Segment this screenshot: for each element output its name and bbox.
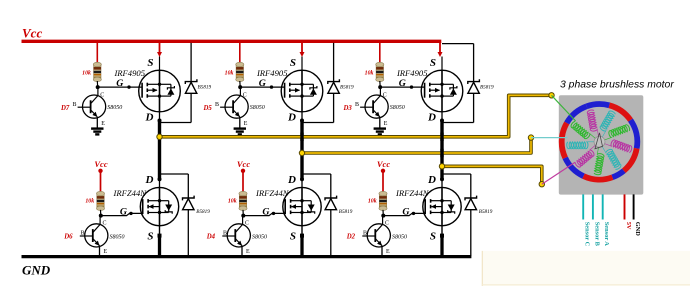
motor rotor magnet ring <box>562 104 638 180</box>
wire hall Sensor C (teal) <box>582 194 584 219</box>
svg-text:B5819: B5819 <box>339 209 353 215</box>
wire phase node 1 (thick) <box>158 121 161 180</box>
wire Vcc to S of high-side MOSFET 1 (red stub with arrow) <box>157 43 162 57</box>
svg-text:5V: 5V <box>625 222 632 230</box>
schottky diode B5819 low 3 <box>465 196 477 256</box>
wire emitter to ground high 2 <box>239 117 241 128</box>
svg-text:D: D <box>145 174 154 186</box>
wire node to gate low 2 <box>243 213 285 215</box>
wire S lead high 1 <box>159 57 161 71</box>
wire emitter to ground high 3 <box>379 117 381 128</box>
motor stator coil 6 <box>604 137 632 153</box>
wire phase A lead (green) <box>552 95 576 121</box>
motor stator coil 3 <box>587 110 599 139</box>
junction dot phase bottom 2 <box>300 177 304 181</box>
svg-text:E: E <box>384 121 388 127</box>
svg-text:D2: D2 <box>346 234 356 241</box>
svg-text:GND: GND <box>634 222 641 237</box>
svg-text:C: C <box>383 93 387 99</box>
svg-text:C: C <box>103 220 107 226</box>
svg-text:B5819: B5819 <box>480 85 494 91</box>
wire emitter to GND rail low 2 <box>241 246 243 256</box>
wire schottky to phase high 2 <box>302 122 334 124</box>
junction dot phase bottom 3 <box>440 177 444 181</box>
wire S lead high 3 <box>441 57 443 71</box>
svg-text:10k: 10k <box>368 199 377 205</box>
svg-text:B5819: B5819 <box>479 209 493 215</box>
svg-text:S: S <box>430 231 436 243</box>
wire Vcc to resistor high 3 (red) <box>379 43 381 63</box>
wire S to GND rail low 2 (thick) <box>301 226 303 256</box>
wire resistor to node low 1 <box>100 210 102 216</box>
schottky diode B5819 low 1 <box>183 196 195 256</box>
ground symbol high 1 <box>91 129 103 135</box>
svg-text:B5819: B5819 <box>196 209 210 215</box>
svg-text:C: C <box>385 220 389 226</box>
wire resistor to node high 1 <box>96 81 98 87</box>
node dot gate-drive high 1 <box>96 85 100 89</box>
motor rotor position marker <box>595 133 603 149</box>
wire D lead low 3 <box>441 179 443 187</box>
wire node to gate high 2 <box>240 86 284 88</box>
svg-text:B5819: B5819 <box>340 85 354 91</box>
wire resistor to node low 3 <box>382 210 384 216</box>
wire D lead low 1 <box>159 179 161 187</box>
transistor D7 S8050 (high driver 1) <box>78 87 106 118</box>
node dot gate-drive low 3 <box>381 214 385 218</box>
junction dot phase C end (gold) <box>539 182 544 187</box>
wire node to gate high 3 <box>380 86 424 88</box>
junction dot gate wire low 1 <box>129 212 132 215</box>
svg-text:S8050: S8050 <box>250 105 265 111</box>
node dot gate-drive high 2 <box>238 85 242 89</box>
motor stator coil 4 <box>596 110 616 138</box>
wire resistor to node high 3 <box>379 81 381 87</box>
svg-text:10k: 10k <box>82 71 91 77</box>
junction dot S lead low 3 <box>440 234 444 238</box>
Vcc supply arrow low 2 (red) <box>241 169 245 192</box>
wire motor 5V (red) <box>624 194 626 219</box>
wire motor phase C (gold) <box>442 166 542 184</box>
wire S lead high 2 <box>301 57 303 71</box>
svg-text:B: B <box>355 102 359 108</box>
svg-text:D7: D7 <box>60 105 70 112</box>
svg-text:C: C <box>243 93 247 99</box>
wire Vcc to S of high-side MOSFET 3 (red stub with arrow) <box>0 0 1 1</box>
ground symbol high 2 <box>234 129 246 135</box>
wire Vcc to resistor high 2 (red) <box>239 43 241 63</box>
svg-text:E: E <box>246 249 250 255</box>
resistor 10k low 1 <box>96 191 104 210</box>
transistor D5 S8050 (high driver 2) <box>220 87 248 118</box>
junction dot gate wire high 3 <box>410 85 413 88</box>
svg-text:3 phase brushless motor: 3 phase brushless motor <box>560 79 674 90</box>
svg-text:10k: 10k <box>228 199 237 205</box>
node dot gate-drive high 3 <box>378 85 382 89</box>
resistor 10k low 2 <box>239 191 247 210</box>
junction dot S lead low 1 <box>158 234 162 238</box>
wire D lead low 2 <box>301 179 303 187</box>
junction dot S lead low 2 <box>300 234 304 238</box>
svg-text:IRF4905: IRF4905 <box>113 68 145 78</box>
svg-text:Vcc: Vcc <box>94 159 107 169</box>
svg-text:D: D <box>287 174 296 186</box>
wire Vcc to resistor high 1 (red) <box>96 43 98 63</box>
svg-text:Vcc: Vcc <box>22 26 42 41</box>
svg-text:Sensor C: Sensor C <box>584 222 591 247</box>
svg-text:C: C <box>245 220 249 226</box>
wire node to gate low 3 <box>383 213 425 215</box>
svg-text:S: S <box>147 231 153 243</box>
wire Vcc to schottky cathode high 3 <box>442 44 474 82</box>
wire phase node 3 (thick) <box>440 121 443 180</box>
wire Vcc to S of high-side MOSFET 2 (red stub with arrow) <box>300 43 305 57</box>
svg-text:D: D <box>427 174 436 186</box>
svg-text:S: S <box>430 57 436 69</box>
transistor D6 S8050 (low driver 1) <box>80 216 108 247</box>
svg-text:C: C <box>100 93 104 99</box>
wire phase node 2 (thick) <box>300 121 303 180</box>
wire phase to schottky low 3 <box>442 174 471 198</box>
wire D lead high 3 <box>441 112 443 121</box>
svg-text:B: B <box>223 231 227 237</box>
transistor D3 S8050 (high driver 3) <box>360 87 388 118</box>
svg-text:D5: D5 <box>202 105 212 112</box>
junction dot phase C tap (gold) <box>439 164 444 169</box>
svg-text:Vcc: Vcc <box>377 159 390 169</box>
wire schottky to phase high 1 <box>160 122 192 124</box>
motor stator coil 2 <box>570 121 596 144</box>
wire phase 2 overdraw at crossing with gold wire A <box>300 133 303 141</box>
node dot gate-drive low 2 <box>241 214 245 218</box>
mosfet Q3 IRF4905 (P-channel, high side) <box>421 70 463 112</box>
motor stator coil 5 <box>602 124 630 140</box>
schottky diode B5819 high 3 <box>468 79 480 122</box>
junction dot phase A tap (gold) <box>157 134 162 139</box>
svg-text:GND: GND <box>22 262 51 277</box>
mosfet Q5 IRFZ44N (N-channel, low side) <box>283 187 321 225</box>
wire phase 3 overdraw at crossings with gold wires A and B <box>440 133 443 158</box>
svg-text:S8050: S8050 <box>390 105 405 111</box>
svg-text:S8050: S8050 <box>252 234 267 240</box>
resistor 10k low 3 <box>379 191 387 210</box>
svg-text:IRFZ44N: IRFZ44N <box>113 188 148 198</box>
Vcc power rail <box>22 41 443 57</box>
GND rail <box>22 255 472 258</box>
junction dot gate wire high 2 <box>270 85 273 88</box>
wire resistor to node high 2 <box>239 81 241 87</box>
svg-text:10k: 10k <box>365 71 374 77</box>
svg-text:E: E <box>104 249 108 255</box>
wire hall Sensor B (teal) <box>592 194 594 219</box>
motor stator coil 9 <box>574 145 600 168</box>
svg-text:S: S <box>290 231 296 243</box>
mosfet Q1 IRF4905 (P-channel, high side) <box>139 70 181 112</box>
svg-text:Sensor B: Sensor B <box>593 222 600 247</box>
svg-text:10k: 10k <box>85 199 94 205</box>
svg-text:B: B <box>81 231 85 237</box>
svg-text:10k: 10k <box>225 71 234 77</box>
junction dot phase B tap (gold) <box>299 150 304 155</box>
svg-text:B: B <box>73 102 77 108</box>
svg-text:E: E <box>101 121 105 127</box>
svg-text:B5819: B5819 <box>198 85 212 91</box>
node dot gate-drive low 1 <box>99 214 103 218</box>
svg-text:S8050: S8050 <box>107 105 122 111</box>
svg-text:D3: D3 <box>342 105 352 112</box>
svg-text:B: B <box>363 231 367 237</box>
wire schottky to phase high 3 <box>442 122 474 124</box>
svg-text:D: D <box>427 112 436 124</box>
wire phase to schottky low 1 <box>160 174 189 198</box>
svg-text:Sensor A: Sensor A <box>603 222 610 247</box>
transistor D2 S8050 (low driver 3) <box>362 216 390 247</box>
mosfet Q6 IRFZ44N (N-channel, low side) <box>423 187 461 225</box>
wire D lead high 2 <box>301 112 303 121</box>
wire phase to schottky low 2 <box>302 174 331 198</box>
svg-text:D: D <box>145 112 154 124</box>
svg-text:IRFZ44N: IRFZ44N <box>395 188 430 198</box>
wire emitter to ground high 1 <box>96 117 98 128</box>
svg-text:S8050: S8050 <box>110 234 125 240</box>
svg-text:IRF4905: IRF4905 <box>256 68 288 78</box>
wire emitter to GND rail low 1 <box>99 246 101 256</box>
mosfet Q4 IRFZ44N (N-channel, low side) <box>140 187 178 225</box>
wire motor phase B (gold) <box>302 138 531 153</box>
wire resistor to node low 2 <box>242 210 244 216</box>
svg-text:IRF4905: IRF4905 <box>396 68 428 78</box>
svg-text:Vcc: Vcc <box>237 159 250 169</box>
svg-text:D6: D6 <box>63 234 73 241</box>
transistor D4 S8050 (low driver 2) <box>222 216 250 247</box>
svg-text:IRFZ44N: IRFZ44N <box>255 188 290 198</box>
junction dot phase top 1 <box>158 119 162 123</box>
mosfet Q2 IRF4905 (P-channel, high side) <box>281 70 323 112</box>
wire motor phase A (gold) <box>160 95 552 137</box>
svg-text:E: E <box>386 249 390 255</box>
junction dot gate wire low 3 <box>412 212 415 215</box>
motor stator coil 1 <box>567 142 595 149</box>
wire motor GND (black) <box>633 194 635 219</box>
junction dot gate wire low 2 <box>272 212 275 215</box>
svg-text:E: E <box>244 121 248 127</box>
motor M1 3-phase brushless (body) <box>559 95 644 194</box>
Vcc supply arrow low 3 (red) <box>381 169 385 192</box>
background cream panel <box>482 251 690 286</box>
junction dot phase A end (gold) <box>549 93 554 98</box>
svg-text:S: S <box>290 57 296 69</box>
motor hub <box>594 136 605 147</box>
motor stator coil 7 <box>602 143 622 171</box>
schottky diode B5819 low 2 <box>325 196 337 256</box>
svg-text:D4: D4 <box>206 234 216 241</box>
motor stator coil 8 <box>594 147 606 176</box>
junction dot gate wire high 1 <box>127 85 130 88</box>
junction dot phase top 2 <box>300 119 304 123</box>
junction dot phase B end (gold) <box>528 135 533 140</box>
wire phase C lead (magenta) <box>542 162 575 184</box>
svg-text:S8050: S8050 <box>392 234 407 240</box>
wire D lead high 1 <box>159 112 161 121</box>
schottky diode B5819 high 2 <box>328 79 340 122</box>
svg-text:B: B <box>215 102 219 108</box>
wire hall Sensor A (teal) <box>602 194 604 219</box>
wire node to gate high 1 <box>98 86 142 88</box>
resistor 10k high 3 <box>376 62 384 81</box>
ground symbol high 3 <box>374 129 386 135</box>
svg-text:D: D <box>287 112 296 124</box>
schottky diode B5819 high 1 <box>185 79 197 122</box>
resistor 10k high 2 <box>236 62 244 81</box>
junction dot phase top 3 <box>440 119 444 123</box>
wire emitter to GND rail low 3 <box>381 246 383 256</box>
resistor 10k high 1 <box>93 62 101 81</box>
junction dot phase bottom 1 <box>158 177 162 181</box>
wire node to gate low 1 <box>101 213 143 215</box>
wire S to GND rail low 3 (thick) <box>441 226 443 256</box>
wire Vcc to schottky cathode high 1 <box>190 43 192 82</box>
Vcc supply arrow low 1 (red) <box>98 169 102 192</box>
wire S to GND rail low 1 (thick) <box>159 226 161 256</box>
svg-text:S: S <box>147 57 153 69</box>
wire phase B lead (cyan) <box>531 137 568 139</box>
wire Vcc to schottky cathode high 2 <box>333 43 335 82</box>
